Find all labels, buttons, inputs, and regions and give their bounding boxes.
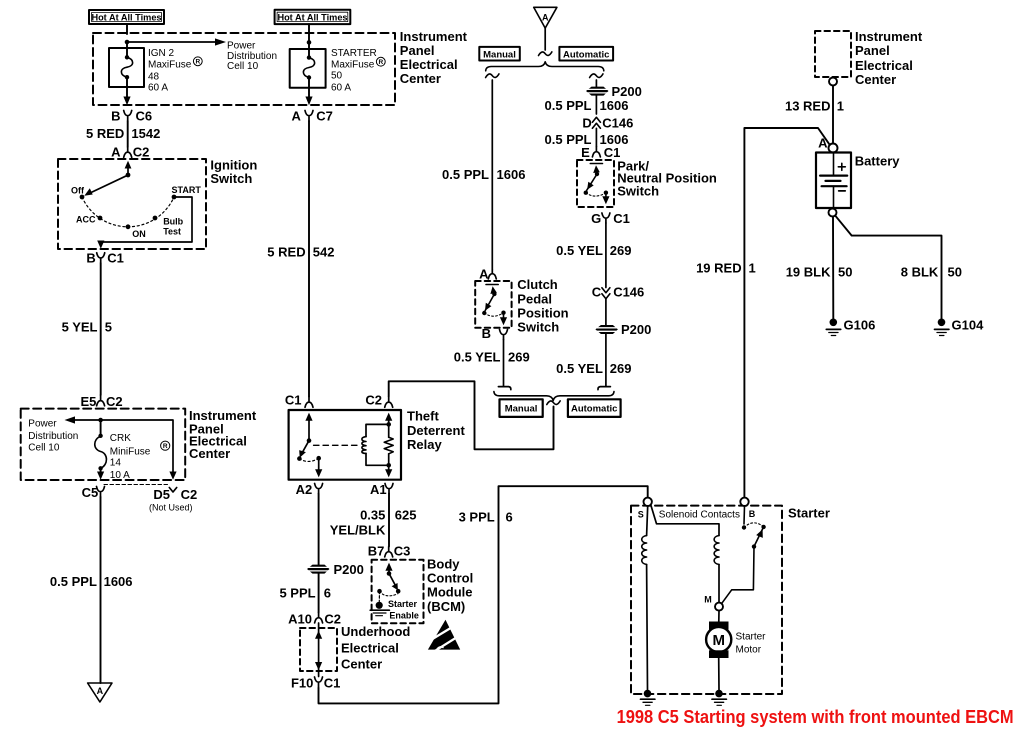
wire end mark (automatic) [598,387,610,390]
wire from manual/automatic merge to TDR C2 [389,381,554,449]
connector F10 C1 [291,676,340,691]
svg-text:0.5 PPL: 0.5 PPL [545,98,592,113]
underhood electrical center box [300,628,337,671]
fuse STARTER MaxiFuse 50 60A [290,42,326,105]
svg-text:Distribution: Distribution [28,431,78,442]
svg-text:542: 542 [313,245,335,260]
svg-text:Electrical: Electrical [400,57,458,72]
connector B (clutch switch) [482,326,508,341]
svg-text:269: 269 [610,243,632,258]
svg-text:Automatic: Automatic [571,403,617,414]
svg-text:B: B [86,251,95,266]
svg-text:MaxiFuse: MaxiFuse [331,60,375,71]
svg-text:A: A [292,108,302,123]
svg-text:C6: C6 [136,109,153,124]
svg-text:10 A: 10 A [110,470,130,481]
svg-text:B: B [749,509,756,519]
connector B7 C3 [368,543,411,558]
wire A2 to P200 [318,494,320,566]
svg-text:A: A [111,145,121,160]
wire end mark (manual) [498,387,510,390]
svg-text:C146: C146 [613,285,644,300]
label: CRK MiniFuse R 14 10 A [110,433,170,481]
svg-text:D5: D5 [153,487,170,502]
relay coil and resistor (inside TDR) [362,413,393,478]
connector A (clutch pedal position switch) [479,266,496,281]
wire 8 BLK 50 to G104 [835,216,962,319]
svg-text:Center: Center [400,71,441,86]
park/neutral position switch box [577,160,614,207]
svg-text:269: 269 [610,361,632,376]
squiggle automatic branch [590,74,603,78]
svg-text:0.5 YEL: 0.5 YEL [556,243,603,258]
label: Instrument Panel Electrical Center (left) [189,408,257,461]
svg-text:1998 C5 Starting system with f: 1998 C5 Starting system with front mount… [617,706,1014,727]
terminal M [704,595,723,611]
node ACC [98,216,103,221]
svg-text:Instrument: Instrument [855,29,923,44]
park/neutral switch internals [584,164,610,205]
svg-text:E5: E5 [80,394,96,409]
svg-text:P200: P200 [334,562,364,577]
svg-text:Panel: Panel [855,43,890,58]
connector C C146 [592,285,644,300]
svg-text:0.35: 0.35 [360,507,385,522]
label: Hot At All Times (left) [89,10,164,24]
svg-text:60 A: 60 A [148,82,168,93]
svg-text:14: 14 [110,458,122,469]
wire through UEC with arrows [315,623,322,677]
wire from Hot At All Times to IPEC [126,24,128,34]
svg-text:A10: A10 [288,612,312,627]
label: Manual (top) [479,47,520,61]
node: off-page triangle A (top) [534,7,557,28]
svg-text:A: A [818,136,828,151]
wire 13 RED 1 [785,86,844,144]
clutch pedal position switch box [475,281,511,328]
label: Automatic (top) [559,47,613,61]
wire 0.5 PPL 1606 (upper) [545,96,629,114]
label: Hot At All Times (right) [275,10,351,24]
svg-text:D: D [582,116,591,131]
svg-text:S: S [638,509,644,519]
svg-text:Electrical: Electrical [341,641,399,656]
svg-text:B: B [111,109,120,124]
wire S to hold-in winding [651,505,719,536]
starter box [631,506,782,694]
svg-text:5 YEL: 5 YEL [62,320,98,335]
svg-text:(BCM): (BCM) [427,599,465,614]
label Bulb Test [163,216,183,236]
svg-text:Deterrent: Deterrent [407,423,465,438]
svg-text:Battery: Battery [855,154,901,169]
squiggle manual branch [486,74,499,78]
svg-text:Bulb: Bulb [163,216,183,226]
brace gathering manual/automatic branches (top) [486,62,604,71]
node: junction dot on IGN2 feed [125,40,130,45]
svg-text:48: 48 [148,71,160,82]
label: Automatic (lower) [568,399,621,417]
svg-text:P200: P200 [612,84,642,99]
connector D5 C2 (not used) [149,487,197,513]
label: IGN 2 MaxiFuse R 48 60 A [148,48,202,93]
svg-text:YEL/BLK: YEL/BLK [330,522,386,537]
connector A C2 (ignition switch) [111,145,149,160]
node Off [80,195,85,200]
ground (starter motor) [712,690,726,706]
svg-text:F10: F10 [291,676,313,691]
label: Instrument Panel Electrical Center (top) [400,29,468,86]
svg-text:C2: C2 [181,487,198,502]
connector E5 C2 [80,394,122,409]
svg-text:Module: Module [427,585,473,600]
dashed mechanical link (relay) [314,444,360,446]
svg-text:MiniFuse: MiniFuse [110,447,151,458]
wire 5 RED 542 [267,121,334,397]
label: Manual (lower) [500,399,543,417]
svg-text:5 PPL: 5 PPL [279,586,315,601]
svg-text:Solenoid Contacts: Solenoid Contacts [659,510,740,521]
svg-text:C3: C3 [394,543,411,558]
svg-text:19 BLK: 19 BLK [786,265,831,280]
svg-text:Starter: Starter [388,599,418,609]
svg-text:Instrument: Instrument [400,29,468,44]
svg-text:C7: C7 [316,108,333,123]
brace gathering manual/automatic (lower) [494,392,614,401]
svg-text:Starter: Starter [788,506,830,521]
node A (battery positive terminal) [818,136,837,153]
svg-text:Off: Off [71,186,85,196]
svg-text:Manual: Manual [505,403,538,414]
splice squiggle (top) [539,52,552,56]
svg-text:R: R [163,443,168,450]
wire from triangle A down [544,28,546,50]
label: Underhood Electrical Center [341,624,410,672]
connector A1 [370,482,393,497]
svg-text:5 RED: 5 RED [267,245,305,260]
svg-text:G104: G104 [952,317,985,332]
connector A C7 [292,108,333,123]
svg-text:1606: 1606 [600,98,629,113]
svg-text:R: R [378,59,383,66]
svg-text:Center: Center [341,657,382,672]
svg-text:5: 5 [105,320,112,335]
wire 5 PPL 6 [279,574,331,613]
svg-text:3 PPL: 3 PPL [459,510,495,525]
label: Power Distribution Cell 10 (left) [28,419,78,454]
label: Power Distribution Cell 10 (top) [227,40,277,72]
svg-text:Position: Position [517,306,568,321]
svg-text:START: START [172,185,202,195]
svg-text:C1: C1 [285,392,302,407]
wire from Hot At All Times to IPEC (starter) [308,24,310,42]
connector A10 C2 [288,612,341,627]
instrument panel electrical center box (left, CRK fuse) [21,409,186,480]
svg-text:A1: A1 [370,482,387,497]
fuse IGN 2 MaxiFuse 48 60A [109,42,144,105]
svg-text:G: G [591,211,601,226]
ground (solenoid windings) [641,690,655,706]
svg-text:Power: Power [227,40,256,51]
wire 0.5 YEL 269 (manual) [454,340,530,386]
svg-text:Electrical: Electrical [855,58,913,73]
relay switch contacts (inside TDR) [297,413,322,478]
svg-text:6: 6 [506,510,513,525]
terminal S [638,498,652,520]
svg-text:R: R [195,59,200,66]
svg-text:C2: C2 [365,392,382,407]
terminal B [740,498,756,519]
svg-text:MaxiFuse: MaxiFuse [148,60,192,71]
svg-text:19 RED: 19 RED [696,260,742,275]
svg-text:A2: A2 [296,482,313,497]
dotted detent arc [82,197,174,227]
svg-text:ON: ON [132,229,146,239]
svg-text:60 A: 60 A [331,82,351,93]
svg-text:8 BLK: 8 BLK [901,265,939,280]
wire 5 RED 1542 [86,121,160,147]
ignition switch box [58,159,206,249]
label: Clutch Pedal Position Switch [517,277,568,335]
label: Body Control Module (BCM) [427,557,473,614]
connector E C1 [581,145,620,160]
svg-text:Manual: Manual [483,50,516,61]
svg-text:1606: 1606 [104,574,133,589]
svg-text:1606: 1606 [497,167,526,182]
node ON [126,224,131,229]
svg-text:Cell 10: Cell 10 [227,61,259,72]
svg-text:0.5 PPL: 0.5 PPL [442,167,489,182]
svg-text:A: A [542,13,549,23]
svg-text:50: 50 [331,71,343,82]
wire 0.5 YEL 269 (lower automatic) [556,334,631,386]
connector D C146 [582,116,633,131]
svg-text:13 RED: 13 RED [785,99,831,114]
svg-text:6: 6 [324,586,331,601]
ground G106 [826,317,875,335]
svg-text:G106: G106 [844,317,876,332]
svg-text:Underhood: Underhood [341,624,410,639]
svg-text:Switch: Switch [210,171,252,186]
dashed link C5 to D5 [104,484,168,486]
clutch switch internals [482,285,507,326]
svg-text:IGN 2: IGN 2 [148,48,175,59]
label: Starter Motor [736,632,767,656]
connector C5 [82,485,105,500]
label: Starter Enable [388,599,419,621]
svg-text:1: 1 [837,99,844,114]
svg-text:C2: C2 [133,145,150,160]
label: STARTER MaxiFuse R 50 60 A [331,48,385,93]
svg-text:CRK: CRK [110,433,131,444]
ground (BCM starter enable) [370,602,389,616]
svg-text:A: A [97,686,104,696]
svg-text:C1: C1 [107,251,124,266]
splice squiggle (lower) [547,401,560,405]
svg-text:C: C [592,285,602,300]
svg-text:B: B [482,326,491,341]
svg-text:C2: C2 [324,612,341,627]
svg-text:C146: C146 [602,116,633,131]
node: off-page triangle A (bottom left) [88,683,112,702]
wire automatic branch to P200 [595,80,597,87]
label: Instrument Panel Electrical Center (right) [855,29,923,87]
svg-text:269: 269 [508,350,530,365]
relay box: Theft Deterrent Relay [289,410,401,480]
node: junction dot on STARTER feed [307,40,312,45]
svg-text:Center: Center [855,72,896,87]
svg-text:STARTER: STARTER [331,48,377,59]
wire 0.5 YEL 269 (upper automatic) [556,223,631,288]
label: Ignition Switch [210,158,257,186]
ground G104 [935,317,985,335]
svg-text:Control: Control [427,570,473,585]
svg-text:0.5 YEL: 0.5 YEL [556,361,603,376]
svg-text:ACC: ACC [76,215,96,225]
svg-text:M: M [704,595,712,605]
svg-text:Theft: Theft [407,409,439,424]
ignition switch internals [84,161,131,196]
wire arrow to Power Distribution Cell 10 (left) [65,416,101,423]
wire arrow to Power Distribution Cell 10 [127,38,226,45]
solenoid pull-in winding (left coil) [642,506,648,690]
svg-text:Pedal: Pedal [517,291,552,306]
connector P200 (left) [306,562,364,577]
connector A2 [296,482,323,497]
svg-text:50: 50 [948,265,962,280]
node START [172,195,177,200]
wire 0.35 YEL/BLK 625 (A1 to BCM) [330,494,417,547]
connector B C6 [111,109,152,124]
wire 0.5 PPL 1606 (manual branch) [442,80,525,270]
wire down to P200 (automatic) [605,299,607,326]
svg-text:Hot At All Times: Hot At All Times [277,12,347,22]
ESD sensitive symbol [428,620,463,652]
connector P200 (top) [585,84,642,99]
svg-text:Motor: Motor [736,644,762,655]
wire 0.5 PPL 1606 (to E C1) [545,128,629,147]
svg-text:Switch: Switch [617,183,659,198]
wire 3 PPL 6 (F10 to starter solenoid S) [319,486,648,703]
svg-text:Enable: Enable [389,611,419,621]
svg-text:0.5 YEL: 0.5 YEL [454,350,501,365]
svg-text:625: 625 [395,507,417,522]
fuse CRK MiniFuse 14 10A [95,420,107,480]
svg-text:C1: C1 [613,211,630,226]
wire from START position to B C1 [97,197,192,249]
terminal circle (IPEC output) [829,78,837,86]
starter motor [706,611,731,690]
label: Theft Deterrent Relay [407,409,465,453]
wire 5 YEL 5 [62,263,112,395]
svg-text:Test: Test [163,227,181,237]
svg-text:5 RED: 5 RED [86,126,124,141]
terminal circle (battery negative) [829,209,837,217]
svg-text:1542: 1542 [131,126,160,141]
connector P200 (automatic) [594,322,651,337]
svg-text:E: E [581,145,590,160]
instrument panel electrical center box (battery feed) [815,31,851,77]
node Bulb Test [153,216,158,221]
svg-text:1: 1 [749,260,756,275]
wire branch to D5 (not used) [101,420,177,480]
svg-text:C1: C1 [324,676,341,691]
svg-text:Panel: Panel [400,43,435,58]
solenoid contact switch (B) [722,506,766,603]
svg-text:Cell 10: Cell 10 [28,442,60,453]
svg-text:Power: Power [28,419,57,430]
wire 19 RED 1 (battery to starter B) [696,128,830,498]
svg-text:Relay: Relay [407,437,442,452]
node: junction on CRK feed [98,418,103,423]
wire 19 BLK 50 to G106 [786,217,853,319]
svg-text:P200: P200 [621,322,651,337]
battery [816,153,851,209]
svg-text:C2: C2 [106,394,123,409]
label: Park/Neutral Position Switch [617,158,717,198]
svg-text:Starter: Starter [736,632,767,643]
svg-text:B7: B7 [368,543,385,558]
svg-text:50: 50 [838,265,852,280]
svg-text:Switch: Switch [517,320,559,335]
body control module box [372,560,424,624]
connector C2 (theft deterrent relay) [365,392,392,407]
instrument panel electrical center box (top) [93,33,395,105]
svg-text:M: M [712,632,725,649]
svg-text:Automatic: Automatic [563,50,609,61]
svg-text:0.5 PPL: 0.5 PPL [50,574,97,589]
svg-text:Clutch: Clutch [517,277,558,292]
solenoid hold-in winding (middle coil) [714,536,719,603]
svg-text:Center: Center [189,446,230,461]
svg-text:Hot At All Times: Hot At All Times [91,12,161,22]
connector C1 (theft deterrent relay) [285,392,313,407]
connector B C1 [86,251,123,266]
wire 0.5 PPL 1606 (to page connector A) [50,497,133,683]
BCM starter enable switch [377,563,400,602]
svg-text:(Not Used): (Not Used) [149,503,193,513]
connector G C1 [591,211,630,226]
